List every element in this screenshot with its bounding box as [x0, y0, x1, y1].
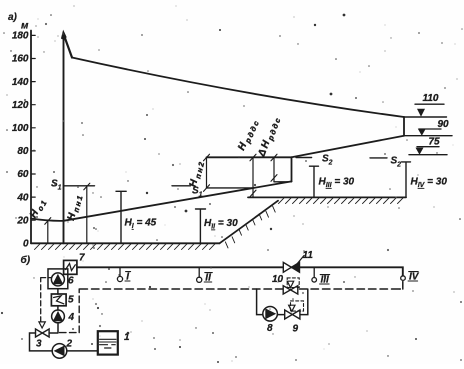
pump 6 [51, 273, 64, 286]
label S2 at III [322, 154, 333, 167]
dimension H_o1 [47, 221, 49, 244]
label H_o1 [28, 196, 49, 221]
line PNS2 to RDDS [207, 156, 292, 158]
svg-text:75: 75 [429, 137, 441, 148]
valve 11 [283, 262, 291, 272]
dimension H_pn1 [86, 186, 88, 244]
supply riser at station 1 [63, 35, 65, 243]
svg-text:10: 10 [272, 274, 284, 285]
ground line [31, 242, 220, 244]
svg-text:140: 140 [12, 77, 29, 88]
svg-text:120: 120 [12, 100, 29, 111]
svg-text:90: 90 [438, 119, 450, 130]
tap node II [198, 267, 200, 277]
pump station box 6 [48, 269, 68, 289]
label S2 at IV [391, 156, 402, 169]
peak drop [64, 34, 73, 58]
svg-text:7: 7 [79, 253, 85, 264]
label H_I = 45 [125, 218, 157, 231]
plateau hatching [279, 198, 404, 204]
label S1 [51, 179, 62, 192]
measure line H_IV [402, 162, 411, 197]
return main dashed [80, 281, 403, 290]
bypass loop wire [257, 289, 308, 315]
S1 line at station [64, 185, 95, 187]
svg-text:а): а) [8, 12, 18, 23]
level line 90 [404, 135, 452, 137]
S2 dash at section IV [370, 157, 387, 159]
svg-text:0: 0 [23, 239, 29, 250]
callout 75 [429, 137, 441, 148]
label H_pn2 [188, 159, 207, 189]
level line 110 [404, 116, 447, 118]
label S1 at PNS2 [192, 186, 203, 199]
svg-text:2: 2 [66, 339, 73, 350]
callout 90 [438, 119, 450, 130]
svg-text:6: 6 [68, 276, 74, 287]
svg-text:S1: S1 [192, 186, 203, 199]
valve 9 [285, 310, 300, 319]
ground hatching [35, 244, 216, 250]
svg-text:НIII = 30: НIII = 30 [319, 177, 355, 190]
svg-text:100: 100 [12, 123, 29, 134]
junction wire to return [49, 332, 58, 334]
callout 110 [423, 93, 439, 104]
svg-text:S1: S1 [51, 179, 62, 192]
label H_II = 30 [204, 218, 238, 231]
measure line H_III [310, 166, 319, 197]
tap node I [119, 267, 121, 276]
impulse line to regulator 3 [41, 278, 52, 322]
RDDS step [291, 157, 293, 181]
terrain slope [220, 201, 279, 244]
supply piezometric line [72, 58, 404, 118]
chain wires [57, 289, 59, 333]
dimension H_rdds [252, 157, 254, 197]
svg-text:9: 9 [293, 324, 299, 335]
label H_III = 30 [319, 177, 355, 190]
makeup wire [30, 333, 98, 351]
y-axis [30, 31, 32, 244]
pump 8 [263, 307, 278, 322]
terrain plateau [248, 196, 406, 198]
svg-text:40: 40 [16, 192, 29, 203]
svg-text:4: 4 [68, 312, 75, 323]
heat source box 7 [64, 260, 77, 274]
svg-text:S2: S2 [391, 156, 402, 169]
svg-text:б): б) [21, 254, 31, 266]
measure line H_II [196, 209, 206, 243]
S2 dash at section III [296, 157, 312, 159]
pump 4 [52, 310, 65, 323]
svg-text:8: 8 [267, 323, 273, 334]
H_pn2 bracket bottom [207, 187, 252, 189]
S1 dash at PNS2 [172, 185, 191, 187]
measure line H_I [116, 191, 126, 243]
tap node III [313, 267, 315, 277]
svg-text:110: 110 [423, 93, 439, 104]
svg-text:3: 3 [36, 339, 42, 350]
valve 3 [36, 329, 50, 337]
svg-text:НI = 45: НI = 45 [125, 218, 157, 231]
return line upper section [292, 136, 405, 158]
supply main [77, 267, 403, 276]
valve 10 [283, 286, 298, 294]
slope hatching [225, 206, 275, 248]
level line 75 [409, 154, 447, 156]
axis numbers [12, 31, 29, 250]
svg-text:180: 180 [12, 31, 29, 42]
label H_rdds [236, 117, 261, 153]
svg-text:Нрддс: Нрддс [236, 117, 261, 153]
delta-H base line [274, 181, 292, 183]
axis ticks [31, 35, 35, 243]
svg-text:НIV = 30: НIV = 30 [411, 177, 448, 190]
svg-text:5: 5 [68, 295, 74, 306]
end node IV [401, 276, 406, 281]
svg-text:160: 160 [12, 54, 29, 65]
dimension H_pn2 [206, 157, 208, 188]
pump 2 [52, 344, 67, 359]
svg-text:Нпн2: Нпн2 [188, 159, 207, 189]
heater box 5 [51, 294, 66, 306]
svg-text:80: 80 [17, 146, 29, 157]
tank 1 [98, 331, 118, 354]
svg-text:20: 20 [16, 215, 29, 226]
return line lower section [31, 181, 292, 220]
label delta-H_rdds [256, 114, 283, 159]
consumer end vertical [403, 117, 405, 136]
label H_pn1 [66, 192, 85, 222]
dimension delta-H_rdds [273, 157, 275, 182]
svg-text:ΔНрддс: ΔНрддс [256, 114, 283, 159]
svg-text:60: 60 [17, 169, 29, 180]
label H_IV = 30 [411, 177, 448, 190]
svg-text:S2: S2 [322, 154, 333, 167]
